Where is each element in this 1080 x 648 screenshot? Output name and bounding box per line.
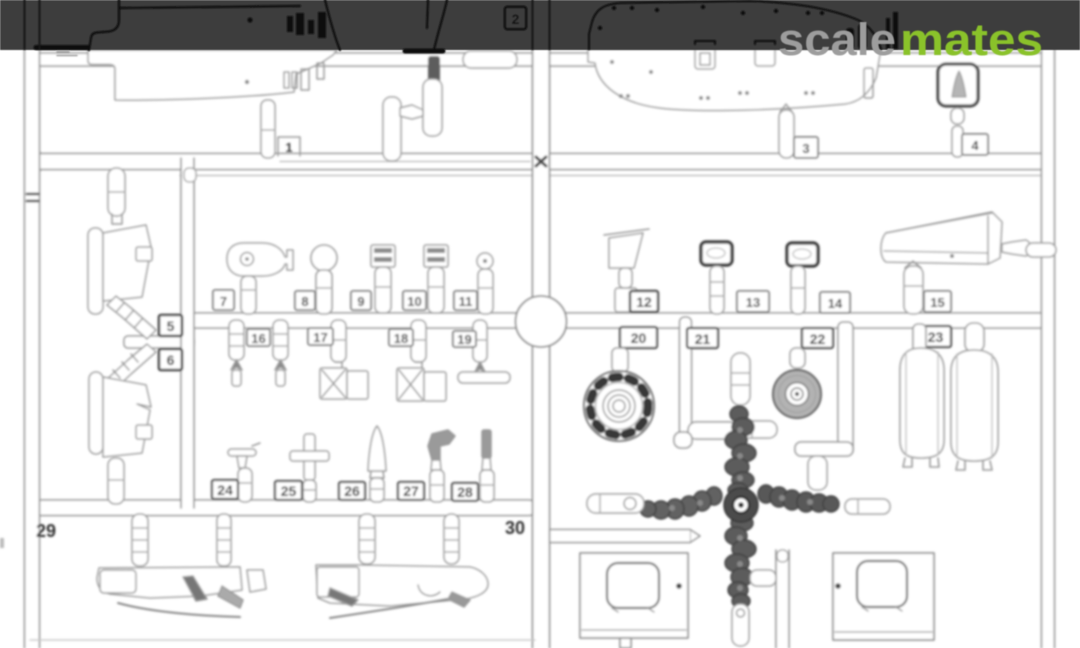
label 21 bbox=[687, 328, 718, 348]
svg-text:7: 7 bbox=[220, 294, 227, 309]
label 19 bbox=[453, 331, 476, 347]
part 1 (fuselage panel, under bar) bbox=[88, 50, 337, 100]
label 3 bbox=[794, 137, 818, 158]
svg-text:17: 17 bbox=[313, 330, 327, 345]
label 12 bbox=[630, 291, 658, 312]
junction mark bbox=[536, 157, 546, 166]
label 2 (black box) bbox=[505, 7, 526, 29]
label 1 bbox=[285, 140, 292, 155]
part 1 top outline (black) bbox=[89, 0, 340, 50]
svg-text:14: 14 bbox=[828, 296, 843, 311]
dark header bar bbox=[0, 0, 1080, 50]
part hatches top lines in bar bbox=[695, 41, 775, 44]
runner VR-22b with foot bbox=[795, 322, 853, 456]
label 27 bbox=[398, 482, 424, 500]
svg-text:24: 24 bbox=[217, 482, 233, 498]
label 18 bbox=[389, 329, 413, 346]
part 16 (two bolts) bbox=[229, 320, 288, 386]
runner HR-B2 bbox=[546, 530, 700, 543]
part 22 (small wheel) bbox=[773, 348, 821, 418]
runner verticals through bar (black) bbox=[25, 0, 550, 49]
engine cluster (dark X assembly) bbox=[640, 406, 839, 608]
part 20 (tire wheel) bbox=[584, 348, 654, 441]
sprue post of part 1 bbox=[261, 100, 300, 158]
svg-text:scale: scale bbox=[778, 14, 896, 65]
hull sprue posts bbox=[132, 514, 459, 566]
runner stub 5-6 bbox=[124, 336, 194, 348]
svg-text:4: 4 bbox=[971, 138, 979, 153]
part 29-b (small wedge) bbox=[247, 570, 266, 592]
svg-text:5: 5 bbox=[167, 318, 175, 334]
label 23 bbox=[920, 326, 951, 347]
part 3 (lower wing panel, under bar) bbox=[588, 41, 881, 111]
part 19 (t-bar) bbox=[458, 320, 510, 383]
engine cluster bottom capsule bbox=[732, 604, 749, 646]
svg-text:10: 10 bbox=[407, 294, 421, 309]
svg-text:2: 2 bbox=[512, 11, 520, 27]
sprue post of part 15 bbox=[904, 261, 923, 314]
part 22b (strut below foot) bbox=[808, 456, 827, 490]
part 6 (seat mirrored) bbox=[89, 344, 156, 504]
label 6 bbox=[159, 349, 182, 370]
label 14 bbox=[820, 292, 850, 313]
sprue post of part 3 bbox=[779, 104, 794, 158]
part 4 (boxed nose cone) bbox=[938, 64, 978, 157]
svg-text:21: 21 bbox=[695, 331, 711, 347]
label 5 bbox=[159, 315, 182, 336]
part 14 (boxed part) bbox=[787, 243, 818, 314]
svg-text:12: 12 bbox=[636, 294, 652, 310]
part 21 (capsule link) bbox=[740, 421, 777, 438]
label 28 bbox=[452, 483, 478, 501]
part 15 (cowling wedge) bbox=[881, 212, 1056, 264]
bottom faint frame line bbox=[30, 639, 535, 641]
label 9 bbox=[351, 291, 371, 310]
svg-text:25: 25 bbox=[281, 483, 297, 499]
in-bar black art bbox=[25, 0, 899, 56]
runner VR-mid bbox=[533, 48, 550, 648]
watermark scalemates bbox=[778, 14, 1043, 65]
svg-text:28: 28 bbox=[457, 484, 473, 500]
label 8 bbox=[295, 291, 315, 310]
label 17 bbox=[308, 328, 333, 345]
runner VR-B bbox=[776, 550, 789, 648]
part 26 (cone) bbox=[368, 426, 386, 502]
svg-text:16: 16 bbox=[251, 331, 265, 346]
label 24 bbox=[212, 480, 238, 499]
part 30-a (hull half right) bbox=[316, 565, 488, 618]
part exhaust capsule left bbox=[587, 494, 644, 513]
runner VR-inner-left bbox=[181, 158, 196, 508]
part 5 (seat) bbox=[88, 168, 156, 339]
part 13 (boxed part) bbox=[701, 242, 732, 314]
svg-text:15: 15 bbox=[930, 295, 944, 310]
svg-text:26: 26 bbox=[344, 483, 360, 499]
part 2 top (black) bbox=[427, 0, 447, 50]
svg-text:9: 9 bbox=[357, 294, 364, 309]
part 7 (pod) bbox=[227, 243, 293, 314]
runner HR-bottomleft bbox=[28, 492, 535, 516]
part 17 (bracket) bbox=[320, 320, 368, 399]
svg-text:20: 20 bbox=[631, 330, 647, 346]
svg-text:11: 11 bbox=[459, 294, 473, 309]
label 4 bbox=[962, 134, 988, 155]
part 18 (bracket) bbox=[397, 320, 446, 401]
part 2 (pylon, under bar) bbox=[383, 56, 442, 161]
svg-text:6: 6 bbox=[167, 352, 175, 368]
svg-text:19: 19 bbox=[457, 332, 471, 347]
label 7 bbox=[213, 290, 234, 310]
part 28 (small blade) bbox=[480, 430, 494, 502]
label 16 bbox=[247, 329, 270, 346]
runner HR-A bbox=[32, 153, 1052, 176]
label 13 bbox=[737, 291, 769, 312]
svg-text:8: 8 bbox=[301, 294, 308, 309]
svg-text:27: 27 bbox=[403, 483, 419, 499]
svg-text:23: 23 bbox=[928, 329, 944, 345]
runner VR-left bbox=[24, 48, 40, 648]
svg-text:29: 29 bbox=[36, 521, 56, 541]
part engine-cluster capsule top bbox=[731, 353, 750, 405]
runner HR-top bbox=[32, 53, 1046, 66]
part 3 top outline (black) bbox=[589, 1, 881, 49]
svg-text:3: 3 bbox=[802, 141, 809, 156]
runner HR-mid-right bbox=[564, 313, 1052, 328]
part 9 (radiator block) bbox=[371, 245, 395, 313]
svg-text:mates: mates bbox=[900, 14, 1043, 65]
part cowl-rect A bbox=[580, 553, 688, 648]
part 27 (lever) bbox=[428, 430, 455, 502]
part exhaust capsule right bbox=[845, 499, 890, 514]
part 8 (wheel disc) bbox=[311, 245, 337, 314]
engine cluster hub bbox=[724, 488, 758, 522]
label 10 bbox=[403, 291, 426, 310]
svg-text:13: 13 bbox=[746, 295, 760, 310]
part canopy strip capsule bbox=[463, 51, 517, 68]
label 20 bbox=[620, 327, 657, 348]
node circle (injection hub) bbox=[516, 296, 567, 347]
runner VR-21 with elbow bbox=[674, 317, 738, 448]
label 22 bbox=[802, 328, 833, 348]
part 24 (mushroom pin) bbox=[228, 443, 260, 502]
svg-text:30: 30 bbox=[505, 518, 525, 538]
part 25 (cross) bbox=[290, 434, 329, 502]
tiny mark left edge bbox=[0, 538, 4, 548]
part 11 (knob) bbox=[477, 253, 493, 314]
label 11-rotated on VR-left bbox=[27, 194, 38, 201]
svg-text:18: 18 bbox=[394, 331, 408, 346]
label 15 bbox=[924, 291, 951, 312]
label 25 bbox=[275, 481, 302, 500]
part 29-a (hull half left) bbox=[97, 567, 243, 617]
part 10 (radiator block) bbox=[424, 245, 448, 313]
part side capsule on VR-B bbox=[750, 570, 776, 586]
part cowl-rect B bbox=[833, 553, 934, 640]
label 26 bbox=[339, 482, 365, 500]
svg-text:22: 22 bbox=[810, 331, 826, 347]
runner VR-right bbox=[1042, 48, 1055, 648]
label 11 bbox=[454, 291, 477, 310]
part 23 (two drop tanks) bbox=[900, 323, 998, 470]
part 12 (cowl flap) bbox=[604, 229, 649, 312]
runner HR-mid-left bbox=[186, 313, 518, 328]
svg-text:1: 1 bbox=[285, 140, 292, 155]
